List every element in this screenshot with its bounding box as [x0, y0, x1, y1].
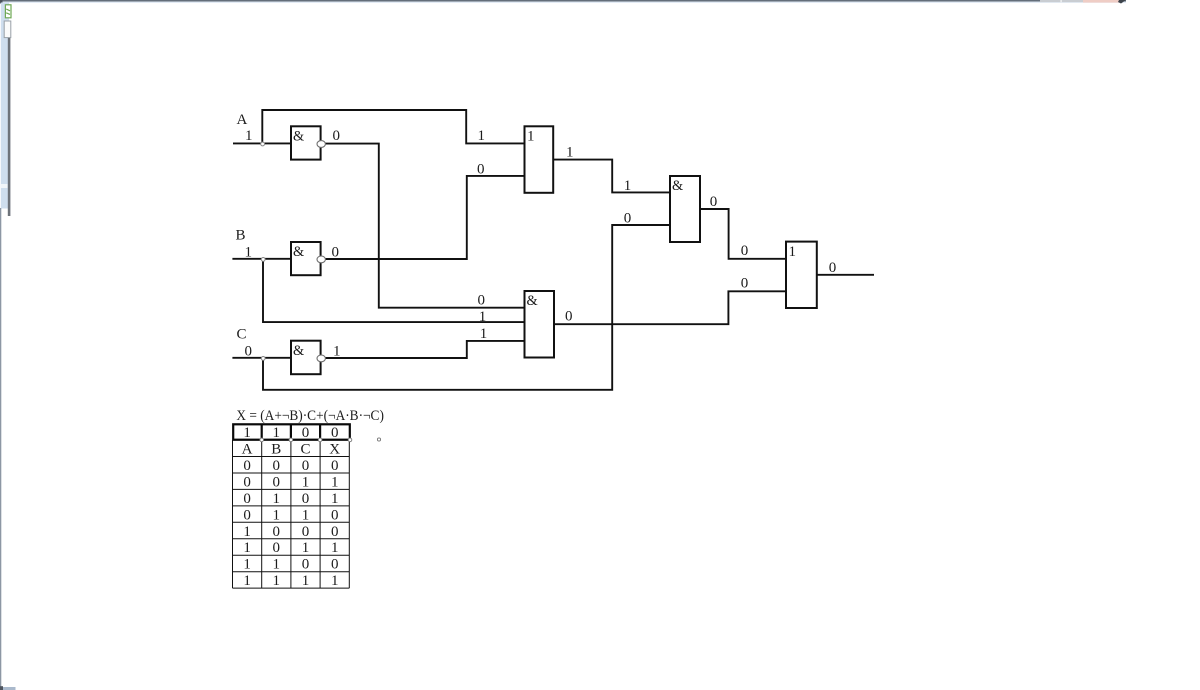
svg-text:0: 0 [624, 210, 632, 226]
wire: A branch up and across to OR1 input 1 [262, 110, 524, 143]
svg-text:1: 1 [302, 573, 310, 589]
svg-text:&: & [293, 343, 304, 359]
svg-text:0: 0 [331, 557, 339, 573]
table text [242, 425, 341, 589]
svg-text:0: 0 [245, 343, 253, 359]
svg-text:1: 1 [302, 474, 310, 490]
svg-text:1: 1 [273, 491, 281, 507]
svg-text:C: C [237, 326, 247, 342]
svg-text:0: 0 [829, 260, 837, 276]
svg-text:1: 1 [243, 540, 251, 556]
svg-text:1: 1 [527, 129, 535, 145]
svg-text:0: 0 [302, 557, 310, 573]
inversion bubble D3 [317, 355, 325, 362]
button divider gap [1061, 0, 1062, 2]
wire: input B [232, 258, 291, 260]
svg-text:0: 0 [243, 491, 251, 507]
svg-text:1: 1 [243, 524, 251, 540]
inversion bubble D2 [317, 256, 325, 263]
selection handles on first row [260, 438, 381, 442]
svg-text:0: 0 [273, 540, 281, 556]
wire: B branch down to lower AND input 2 [263, 259, 525, 322]
svg-text:0: 0 [710, 194, 718, 210]
app icon (green) [5, 5, 11, 18]
wire: OR2 output X [817, 274, 874, 276]
svg-text:0: 0 [243, 474, 251, 490]
junction node C [261, 357, 265, 361]
svg-text:1: 1 [243, 425, 251, 441]
svg-text:0: 0 [477, 162, 485, 178]
top-left corner blob [0, 0, 3, 4]
svg-text:0: 0 [302, 491, 310, 507]
svg-text:1: 1 [302, 540, 310, 556]
svg-text:1: 1 [273, 507, 281, 523]
OR gate D4 [525, 126, 554, 193]
wire: NAND-B output up to OR1 input 2 [325, 176, 524, 259]
svg-text:X = (A+¬B)·C+(¬A·B·¬C): X = (A+¬B)·C+(¬A·B·¬C) [236, 408, 384, 424]
svg-text:0: 0 [273, 524, 281, 540]
svg-text:0: 0 [333, 128, 341, 144]
svg-text:1: 1 [331, 491, 339, 507]
wire: input A [233, 142, 291, 144]
svg-text:1: 1 [479, 309, 487, 325]
svg-text:1: 1 [789, 244, 797, 260]
svg-text:0: 0 [331, 425, 339, 441]
svg-text:0: 0 [243, 458, 251, 474]
svg-text:1: 1 [245, 244, 253, 260]
svg-text:&: & [672, 178, 683, 194]
svg-text:1: 1 [331, 474, 339, 490]
wire: NAND-C output to lower AND input 3 [325, 341, 524, 358]
svg-text:0: 0 [741, 243, 749, 259]
left scrollbar track [1, 3, 9, 209]
svg-text:1: 1 [273, 557, 281, 573]
scrollbar thumb [8, 38, 11, 216]
bottom-left window corner strip [0, 687, 16, 690]
window corner mark [1118, 0, 1126, 4]
detached handle [377, 438, 380, 441]
svg-text:1: 1 [245, 128, 253, 144]
svg-text:X: X [329, 442, 340, 458]
svg-text:0: 0 [331, 507, 339, 523]
svg-text:0: 0 [478, 292, 486, 308]
svg-text:1: 1 [480, 326, 488, 342]
svg-text:0: 0 [273, 458, 281, 474]
svg-text:C: C [300, 442, 310, 458]
svg-text:0: 0 [332, 244, 340, 260]
svg-text:0: 0 [302, 425, 310, 441]
scrollbar track light section [1, 184, 8, 188]
AND gate D5 [670, 176, 700, 242]
svg-text:&: & [527, 293, 538, 309]
svg-text:1: 1 [333, 343, 341, 359]
svg-text:1: 1 [243, 557, 251, 573]
svg-text:1: 1 [302, 507, 310, 523]
svg-text:1: 1 [243, 573, 251, 589]
svg-text:A: A [242, 442, 253, 458]
svg-text:1: 1 [624, 178, 632, 194]
bottom-left corner dark [0, 686, 3, 690]
minimize/maximize button sliver [1040, 0, 1083, 2]
wire: lower AND output to OR2 input 2 [554, 291, 786, 324]
svg-text:&: & [293, 128, 304, 144]
svg-text:1: 1 [566, 145, 574, 161]
svg-text:1: 1 [478, 128, 486, 144]
NAND gate D1 (input A inverter) [291, 126, 321, 159]
svg-text:0: 0 [331, 524, 339, 540]
svg-text:A: A [237, 112, 248, 128]
AND gate D6 (3-input) [525, 291, 555, 358]
svg-text:B: B [236, 227, 246, 243]
wire: OR1 output to AND2 input 1 [553, 160, 670, 193]
NAND gate D3 (input C inverter) [291, 341, 321, 375]
left window edge line [0, 208, 1, 688]
window top highlight line [1, 2, 1126, 3]
svg-text:1: 1 [331, 573, 339, 589]
table thin grid rows [233, 440, 350, 588]
scrollbar button [4, 21, 11, 38]
inversion bubble D1 [317, 141, 325, 148]
svg-text:&: & [293, 244, 304, 260]
svg-text:0: 0 [273, 474, 281, 490]
junction node A [261, 142, 265, 146]
svg-text:0: 0 [243, 507, 251, 523]
svg-text:1: 1 [273, 425, 281, 441]
close button sliver [1083, 0, 1119, 3]
selected first table row (thick border cells) [233, 424, 350, 439]
svg-text:0: 0 [741, 275, 749, 291]
svg-text:B: B [271, 442, 281, 458]
NAND gate D2 (input B inverter) [291, 242, 321, 275]
svg-text:0: 0 [302, 458, 310, 474]
OR gate D7 (output) [786, 242, 817, 308]
app icon detail [6, 9, 10, 14]
svg-text:0: 0 [565, 308, 573, 324]
window top border [0, 0, 1126, 2]
svg-text:0: 0 [302, 524, 310, 540]
svg-text:0: 0 [331, 458, 339, 474]
wire: NAND-A output to lower AND input 1 [325, 144, 524, 308]
svg-text:1: 1 [273, 573, 281, 589]
svg-text:1: 1 [331, 540, 339, 556]
wire: C branch down along bottom up to AND2 input 2 [263, 225, 670, 390]
wire: AND2 output to OR2 input 1 [700, 209, 786, 259]
junction node B [261, 258, 265, 262]
wire: input C [232, 357, 291, 359]
